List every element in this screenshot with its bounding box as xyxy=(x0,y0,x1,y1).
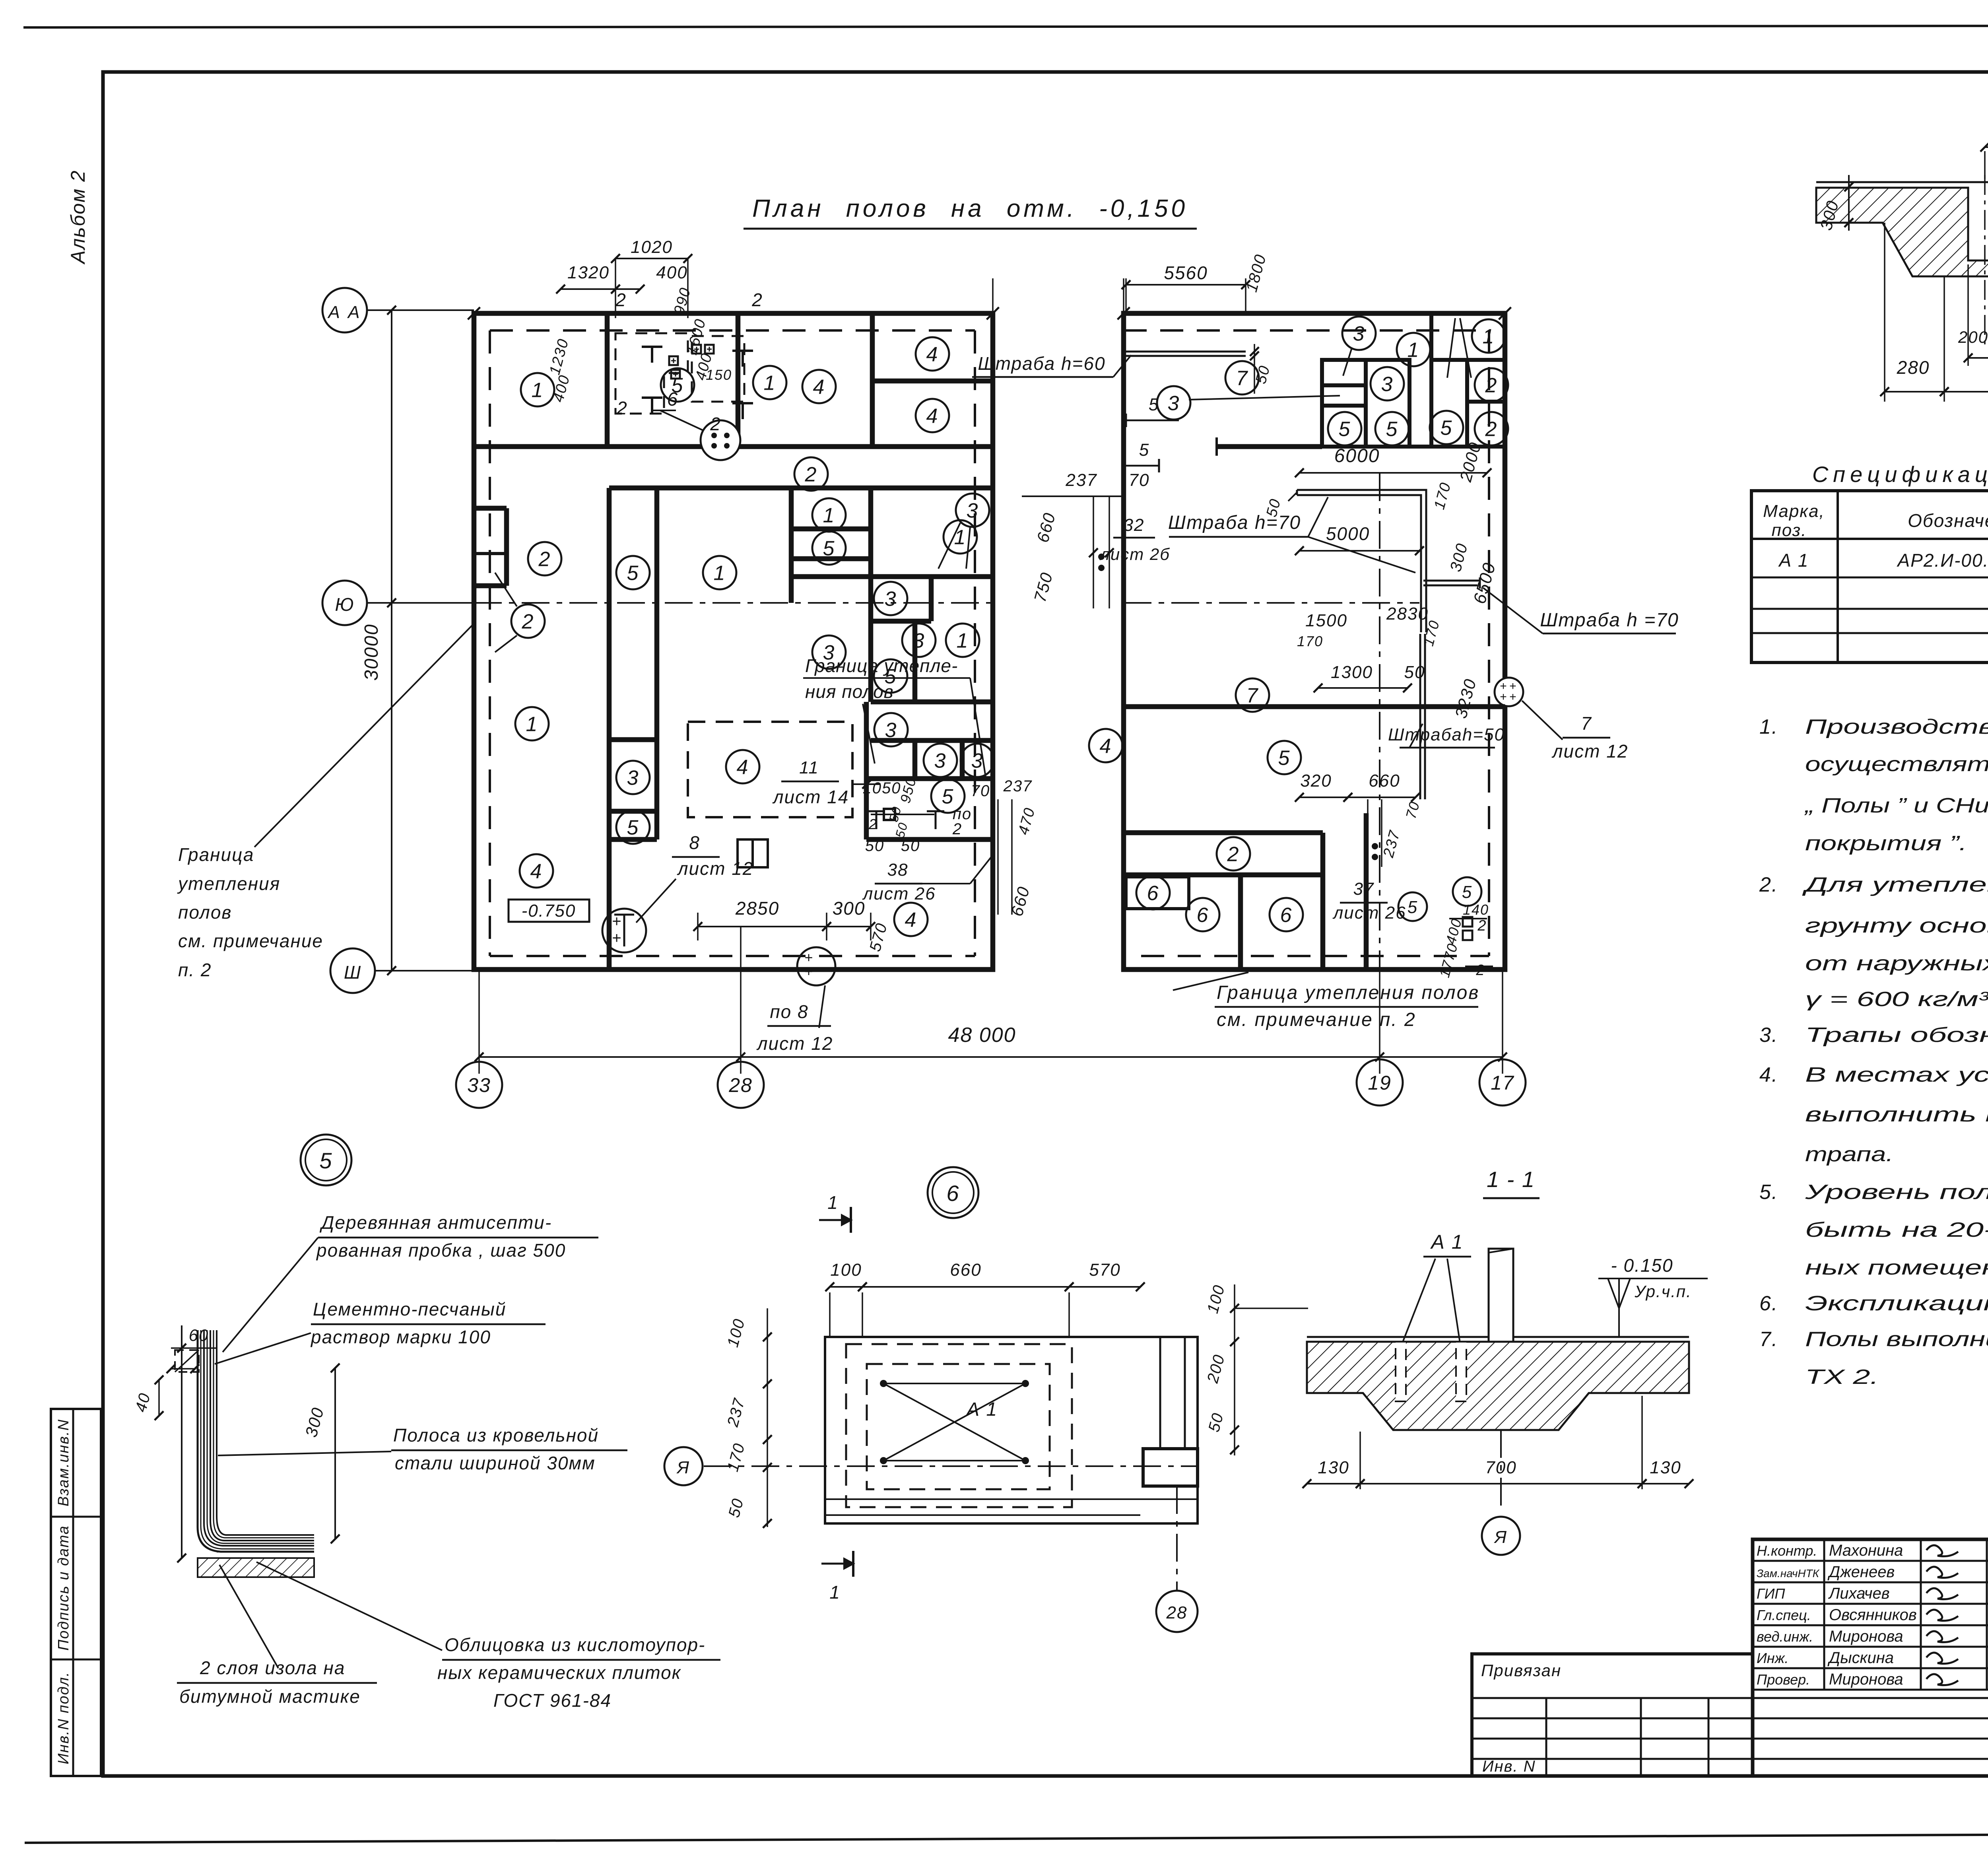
svg-text:ГИП: ГИП xyxy=(1757,1585,1785,1602)
svg-text:5: 5 xyxy=(1139,440,1149,460)
svg-text:6: 6 xyxy=(1197,904,1209,927)
svg-text:5000: 5000 xyxy=(1326,523,1370,544)
svg-text:см. примечание п. 2: см. примечание п. 2 xyxy=(1217,1009,1416,1030)
big room 7 xyxy=(1236,678,1269,712)
svg-text:6000: 6000 xyxy=(1334,445,1380,466)
svg-text:2: 2 xyxy=(1477,917,1487,934)
svg-text:130: 130 xyxy=(1650,1458,1681,1477)
section cut marks 1-1 for detail 6 xyxy=(850,1207,852,1233)
bottom dims s11 xyxy=(1307,1483,1360,1484)
svg-text:3: 3 xyxy=(967,499,979,523)
svg-text:План полов на отм. -0,150: План полов на отм. -0,150 xyxy=(752,195,1188,222)
svg-text:выполнить местный уклон i =: выполнить местный уклон i = 0,02 в сторо… xyxy=(1805,1103,1988,1126)
svg-text:400: 400 xyxy=(656,263,687,282)
title block main rect xyxy=(1753,1539,1988,1776)
svg-text:ГОСТ 961-84: ГОСТ 961-84 xyxy=(493,1690,612,1711)
spec table xyxy=(1751,491,1988,663)
svg-text:1500: 1500 xyxy=(1305,611,1347,630)
insulation dashed boundary right section xyxy=(1124,329,1489,332)
insulation dashed boundary left section xyxy=(490,329,975,332)
svg-text:3: 3 xyxy=(1381,373,1394,396)
svg-text:3.: 3. xyxy=(1759,1024,1778,1047)
trap circle po 8 xyxy=(797,947,835,985)
svg-text:утепления: утепления xyxy=(177,873,280,894)
circle detail 6 with four dots xyxy=(701,420,740,460)
svg-text:1300: 1300 xyxy=(1331,663,1373,682)
svg-text:2 слоя изола на: 2 слоя изола на xyxy=(200,1657,345,1678)
svg-text:Обозначение: Обозначение xyxy=(1908,510,1988,531)
svg-text:ных помещениях.: ных помещениях. xyxy=(1805,1256,1988,1279)
bottom band left section xyxy=(607,839,612,970)
svg-text:1: 1 xyxy=(1483,325,1495,348)
svg-text:6: 6 xyxy=(1147,882,1159,905)
svg-text:1: 1 xyxy=(764,372,776,395)
dims top detail6 xyxy=(830,1286,862,1288)
svg-text:2: 2 xyxy=(952,820,962,838)
svg-text:1020: 1020 xyxy=(631,237,673,257)
svg-text:2: 2 xyxy=(615,289,627,310)
svg-text:Для утепления полов произв: Для утепления полов произвести укладку п… xyxy=(1802,873,1988,896)
svg-text:γ = 600 кг/м³ толщиной 250 м: γ = 600 кг/м³ толщиной 250 мм. xyxy=(1805,988,1988,1011)
svg-text:50: 50 xyxy=(901,837,920,855)
svg-text:лист 26: лист 26 xyxy=(862,884,936,903)
svg-text:Подпись и дата: Подпись и дата xyxy=(55,1525,72,1650)
svg-text:2830: 2830 xyxy=(1386,604,1429,624)
svg-text:+: + xyxy=(1509,690,1517,703)
svg-text:5: 5 xyxy=(823,537,835,560)
svg-text:по 8: по 8 xyxy=(770,1001,808,1022)
sheet bottom edge line xyxy=(25,1832,1988,1843)
svg-text:6: 6 xyxy=(667,389,679,410)
svg-text:Трапы обозначены на листах: Трапы обозначены на листах 4,5. xyxy=(1805,1024,1988,1047)
svg-text:6.: 6. xyxy=(1759,1292,1778,1315)
svg-text:-0.750: -0.750 xyxy=(522,901,576,921)
svg-text:19: 19 xyxy=(1368,1072,1392,1094)
svg-text:ТХ 2.: ТХ 2. xyxy=(1805,1366,1879,1389)
svg-text:Граница: Граница xyxy=(178,844,254,865)
svg-text:грунту основания под констр: грунту основания под конструкцию пола на… xyxy=(1805,914,1988,937)
svg-text:3: 3 xyxy=(1353,323,1365,346)
svg-text:ния полов: ния полов xyxy=(805,681,894,702)
svg-text:Миронова: Миронова xyxy=(1829,1671,1903,1688)
Ya circle detail6 xyxy=(664,1447,703,1485)
48000 dimension xyxy=(479,1056,1503,1058)
svg-text:17: 17 xyxy=(1491,1072,1514,1094)
corridor label 2 xyxy=(794,457,828,491)
top dim cluster xyxy=(615,258,688,259)
svg-text:570: 570 xyxy=(1089,1260,1120,1280)
svg-text:140: 140 xyxy=(1463,902,1489,918)
leader labels 3 xyxy=(956,494,989,527)
svg-text:Я: Я xyxy=(1494,1527,1507,1547)
axis 19 dashdot vertical xyxy=(1379,473,1380,970)
svg-text:Н.контр.: Н.контр. xyxy=(1757,1543,1817,1559)
svg-text:60: 60 xyxy=(189,1326,209,1345)
left sidebar table xyxy=(51,1409,101,1776)
svg-text:5.: 5. xyxy=(1759,1181,1778,1204)
axis circles bottom xyxy=(456,1062,502,1108)
svg-text:1: 1 xyxy=(526,713,538,736)
svg-text:стали шириной 30мм: стали шириной 30мм xyxy=(395,1453,596,1473)
svg-text:660: 660 xyxy=(1369,771,1400,791)
svg-text:8: 8 xyxy=(689,832,700,853)
svg-text:Спецификация к плану пол: Спецификация к плану полов xyxy=(1812,462,1988,487)
svg-text:32: 32 xyxy=(1124,515,1145,535)
6000 dim xyxy=(1299,472,1487,474)
svg-text:3: 3 xyxy=(885,588,897,611)
slab top double line xyxy=(1816,181,1988,183)
svg-text:Лихачев: Лихачев xyxy=(1828,1585,1890,1602)
svg-text:+: + xyxy=(804,963,813,979)
svg-text:1: 1 xyxy=(1408,339,1420,362)
svg-text:Взам.инв.N: Взам.инв.N xyxy=(55,1419,72,1506)
svg-text:2: 2 xyxy=(522,610,534,633)
svg-text:5560: 5560 xyxy=(1164,262,1208,283)
svg-text:+: + xyxy=(612,929,622,947)
dim 5560 and 1800 xyxy=(1126,284,1246,286)
svg-text:Привязан: Привязан xyxy=(1481,1661,1561,1680)
top right rooms cluster B xyxy=(1429,313,1433,447)
notch centerlines xyxy=(1984,175,1986,350)
svg-text:1: 1 xyxy=(829,1582,841,1603)
30000 vertical dimension xyxy=(391,310,392,971)
svg-text:Штрабаh=50: Штрабаh=50 xyxy=(1388,725,1505,744)
bottom dims 280 800 280 xyxy=(1884,223,1885,402)
svg-text:5: 5 xyxy=(1386,418,1398,441)
svg-text:3: 3 xyxy=(934,750,947,773)
svg-text:2.: 2. xyxy=(1759,873,1778,896)
svg-text:поз.: поз. xyxy=(1772,521,1807,540)
svg-text:лист 26: лист 26 xyxy=(1332,903,1406,923)
svg-text:5: 5 xyxy=(319,1148,332,1173)
svg-text:+: + xyxy=(1500,690,1508,703)
svg-text:см. примечание: см. примечание xyxy=(178,931,323,951)
right section outer walls xyxy=(1124,313,1505,970)
svg-text:3: 3 xyxy=(885,719,897,742)
room labels middle block xyxy=(528,542,561,575)
svg-text:28: 28 xyxy=(1166,1603,1188,1622)
300 dim right xyxy=(334,1368,336,1539)
svg-text:АР2.И-00.00.09: АР2.И-00.00.09 xyxy=(1896,550,1988,571)
svg-text:Я: Я xyxy=(676,1458,690,1477)
top band partition walls xyxy=(605,313,610,447)
300 dim left xyxy=(1848,175,1850,231)
5000 dim xyxy=(1299,550,1419,552)
svg-text:- 0.150: - 0.150 xyxy=(1611,1255,1673,1276)
detail 5 circle xyxy=(301,1135,351,1185)
svg-text:Ю: Ю xyxy=(335,594,354,615)
svg-text:5: 5 xyxy=(1339,418,1351,441)
svg-text:280: 280 xyxy=(1897,357,1930,378)
svg-text:В местах устройства трапов: В местах устройства трапов в радиусе 1м xyxy=(1805,1063,1988,1086)
svg-text:50: 50 xyxy=(865,837,885,855)
svg-text:Махонина: Махонина xyxy=(1829,1542,1903,1559)
svg-text:Инв. N: Инв. N xyxy=(1482,1758,1536,1775)
svg-text:Полы выполнить после прокла: Полы выполнить после прокладки труб по ч… xyxy=(1805,1328,1988,1351)
svg-text:Гл.спец.: Гл.спец. xyxy=(1757,1607,1811,1623)
hatched base xyxy=(198,1558,314,1577)
svg-text:Уровень пола в душевых и: Уровень пола в душевых и уборных должен xyxy=(1804,1181,1988,1204)
left section outer walls xyxy=(474,313,993,970)
svg-text:1.: 1. xyxy=(1759,715,1778,738)
svg-text:Марка,: Марка, xyxy=(1763,501,1825,521)
svg-text:Дженеев: Дженеев xyxy=(1827,1563,1895,1581)
svg-text:7: 7 xyxy=(1246,684,1259,707)
svg-text:2: 2 xyxy=(751,289,763,310)
svg-text:вед.инж.: вед.инж. xyxy=(1757,1628,1813,1645)
svg-text:4: 4 xyxy=(1100,735,1112,758)
svg-text:237: 237 xyxy=(1065,470,1097,490)
svg-text:рованная пробка , шаг 500: рованная пробка , шаг 500 xyxy=(316,1240,566,1261)
svg-text:лист 2б: лист 2б xyxy=(1099,545,1170,563)
svg-text:Граница утепле-: Граница утепле- xyxy=(805,655,958,676)
svg-text:1 - 1: 1 - 1 xyxy=(1487,1167,1535,1192)
svg-text:2: 2 xyxy=(538,548,551,571)
slab hatched body xyxy=(1816,188,1988,276)
small dashed trap boxes xyxy=(615,333,688,414)
slab 1-1 xyxy=(1307,1336,1689,1338)
svg-text:Инв.N подл.: Инв.N подл. xyxy=(55,1671,72,1764)
svg-text:Дыскина: Дыскина xyxy=(1827,1649,1894,1667)
bottom floor lines detail6 xyxy=(825,1498,1198,1500)
svg-text:осуществлять согласно требов: осуществлять согласно требованиям СНиП 2… xyxy=(1805,753,1988,776)
svg-text:5: 5 xyxy=(627,562,639,585)
svg-text:30000: 30000 xyxy=(361,624,382,680)
svg-text:660: 660 xyxy=(950,1260,981,1280)
svg-text:Инж.: Инж. xyxy=(1757,1650,1788,1666)
middle rooms block walls xyxy=(609,486,993,491)
svg-text:4: 4 xyxy=(926,405,939,428)
right walls detail6 xyxy=(1159,1337,1161,1449)
svg-text:полов: полов xyxy=(178,902,232,923)
svg-text:от наружных стен слоя кера: от наружных стен слоя керамзитового грав… xyxy=(1805,952,1988,975)
svg-text:48 000: 48 000 xyxy=(948,1024,1016,1047)
main rect detail6 xyxy=(825,1337,1198,1523)
svg-text:Экспликацию полов см. лист: Экспликацию полов см. лист 12. xyxy=(1805,1292,1988,1315)
svg-text:Овсянников: Овсянников xyxy=(1829,1606,1917,1624)
svg-text:320: 320 xyxy=(1300,771,1332,791)
svg-text:2: 2 xyxy=(805,463,817,486)
svg-text:Ур.ч.п.: Ур.ч.п. xyxy=(1634,1282,1692,1301)
dashed anchors xyxy=(1396,1342,1406,1401)
svg-text:3: 3 xyxy=(627,767,639,790)
sheet top edge line xyxy=(23,25,1988,27)
svg-text:Штраба h=60: Штраба h=60 xyxy=(978,353,1105,374)
svg-text:5: 5 xyxy=(1408,898,1418,917)
svg-text:5: 5 xyxy=(942,785,954,808)
svg-text:6: 6 xyxy=(1280,904,1293,927)
svg-text:2: 2 xyxy=(710,414,721,434)
room labels top band xyxy=(521,373,554,406)
svg-text:130: 130 xyxy=(1318,1458,1349,1477)
svg-text:лист 12: лист 12 xyxy=(1551,741,1629,762)
svg-text:лист 12: лист 12 xyxy=(756,1033,833,1054)
svg-text:50: 50 xyxy=(1404,663,1425,682)
svg-text:„ Полы ” и СНиП 3.04.01-87 „: „ Полы ” и СНиП 3.04.01-87 „ Изоляционны… xyxy=(1804,794,1988,817)
left wall small rooms xyxy=(474,506,507,511)
svg-text:ных керамических плиток: ных керамических плиток xyxy=(437,1662,681,1683)
400 dim top xyxy=(1985,146,1988,148)
svg-text:237: 237 xyxy=(1003,777,1033,795)
svg-text:33: 33 xyxy=(467,1074,491,1096)
trap circle right wall xyxy=(1495,678,1523,706)
svg-text:Граница утепления полов: Граница утепления полов xyxy=(1217,982,1479,1003)
svg-text:5: 5 xyxy=(1278,747,1291,770)
Г-shaped shtraba h70 xyxy=(1297,490,1426,632)
svg-text:Полоса из кровельной: Полоса из кровельной xyxy=(393,1425,599,1446)
svg-text:1: 1 xyxy=(532,379,544,402)
axis A-A circle xyxy=(322,288,367,332)
svg-text:Провер.: Провер. xyxy=(1757,1671,1810,1688)
svg-text:Цементно-песчаный: Цементно-песчаный xyxy=(313,1299,506,1319)
svg-text:1: 1 xyxy=(957,630,969,653)
svg-text:А 1: А 1 xyxy=(1778,550,1809,571)
svg-text:5: 5 xyxy=(1441,417,1453,440)
svg-text:11: 11 xyxy=(799,758,819,777)
svg-text:150: 150 xyxy=(706,367,732,383)
svg-text:1320: 1320 xyxy=(567,263,610,282)
svg-text:4: 4 xyxy=(530,860,543,883)
svg-text:70: 70 xyxy=(971,782,990,800)
svg-text:1: 1 xyxy=(827,1192,839,1213)
svg-text:4: 4 xyxy=(737,756,749,779)
vertical shtraba h50 xyxy=(1419,634,1421,799)
svg-text:2: 2 xyxy=(616,398,628,418)
svg-text:38: 38 xyxy=(887,860,909,880)
svg-text:170: 170 xyxy=(1297,633,1323,649)
leaders detail5 xyxy=(223,1238,318,1352)
svg-text:4.: 4. xyxy=(1759,1063,1778,1086)
trap circle 8 xyxy=(602,909,646,952)
svg-text:Производство работ по устро: Производство работ по устройству полов xyxy=(1805,715,1988,738)
detail 5 drawing xyxy=(181,1325,182,1558)
bottom right small dims xyxy=(1453,877,1481,906)
small 5 dims xyxy=(1126,420,1179,422)
svg-text:7: 7 xyxy=(1581,713,1592,734)
axis Sh circle xyxy=(330,948,375,993)
svg-text:2850: 2850 xyxy=(735,898,779,919)
svg-text:5: 5 xyxy=(1462,882,1472,902)
svg-text:Зам.начНТК: Зам.начНТК xyxy=(1757,1567,1820,1580)
Ya circle s11 xyxy=(1500,1430,1502,1511)
detail 6 circle xyxy=(928,1167,978,1218)
svg-text:2: 2 xyxy=(1227,843,1240,866)
svg-text:2: 2 xyxy=(1485,374,1498,397)
dashed insulation inner rect (room 4) xyxy=(688,722,852,817)
svg-text:7.: 7. xyxy=(1759,1328,1778,1351)
svg-text:1: 1 xyxy=(954,526,967,549)
svg-text:28: 28 xyxy=(728,1074,753,1096)
leader 3 to cluster B xyxy=(1447,318,1455,378)
svg-text:покрытия ”.: покрытия ”. xyxy=(1805,832,1967,855)
shtraba stub right xyxy=(1423,580,1480,582)
anchor pipe xyxy=(1489,1249,1513,1342)
svg-text:4: 4 xyxy=(905,909,917,932)
svg-text:раствор марки 100: раствор марки 100 xyxy=(310,1327,491,1347)
axis dash-dot line Yu xyxy=(474,602,993,604)
svg-text:100: 100 xyxy=(830,1260,862,1280)
svg-text:быть на 20-30 мм ниже уров: быть на 20-30 мм ниже уровня полов в сме… xyxy=(1805,1218,1988,1242)
svg-text:лист 12: лист 12 xyxy=(677,858,754,879)
svg-text:Деревянная антисепти-: Деревянная антисепти- xyxy=(319,1212,552,1233)
svg-text:А 1: А 1 xyxy=(1430,1231,1463,1253)
svg-text:200: 200 xyxy=(1958,328,1988,346)
svg-text:4: 4 xyxy=(926,343,939,366)
svg-text:Ш: Ш xyxy=(344,962,361,983)
svg-text:7: 7 xyxy=(1236,367,1248,390)
svg-text:3: 3 xyxy=(913,630,925,653)
axis Yu circle xyxy=(322,581,367,625)
svg-text:2: 2 xyxy=(1475,962,1485,979)
top band bottom wall xyxy=(474,444,993,449)
shtraba h60 strip xyxy=(1126,351,1246,353)
dim 2850 300 570 xyxy=(698,926,827,927)
svg-text:п. 2: п. 2 xyxy=(178,960,212,980)
svg-text:300: 300 xyxy=(833,898,866,919)
svg-text:Альбом 2: Альбом 2 xyxy=(67,170,89,265)
svg-text:Штраба h =70: Штраба h =70 xyxy=(1540,610,1679,631)
svg-text:Штраба h=70: Штраба h=70 xyxy=(1168,512,1301,533)
anchor X detail6 xyxy=(883,1383,1025,1384)
svg-text:битумной мастике: битумной мастике xyxy=(179,1686,361,1707)
svg-text:1: 1 xyxy=(714,562,726,585)
privyazan table xyxy=(1472,1654,1753,1776)
svg-text:лист 14: лист 14 xyxy=(772,787,849,807)
svg-text:4: 4 xyxy=(813,376,825,399)
right section lower walls xyxy=(1124,704,1505,709)
svg-text:А А: А А xyxy=(327,303,361,322)
svg-text:1: 1 xyxy=(823,504,835,527)
svg-text:70: 70 xyxy=(1129,470,1150,490)
svg-text:5: 5 xyxy=(627,816,639,839)
svg-text:2: 2 xyxy=(1485,418,1498,441)
200 dims xyxy=(1967,264,1969,366)
svg-text:6: 6 xyxy=(946,1181,959,1206)
top right rooms cluster A xyxy=(1322,360,1409,447)
svg-text:трапа.: трапа. xyxy=(1805,1143,1893,1166)
svg-text:Облицовка из кислотоупор-: Облицовка из кислотоупор- xyxy=(445,1634,705,1655)
svg-text:Миронова: Миронова xyxy=(1829,1628,1903,1645)
svg-text:А 1: А 1 xyxy=(965,1399,998,1420)
svg-text:3: 3 xyxy=(1168,392,1180,415)
